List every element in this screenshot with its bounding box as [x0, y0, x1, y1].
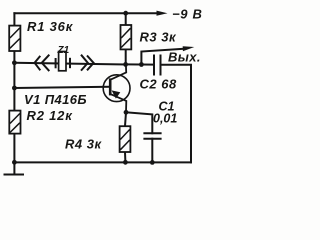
transistor V1 — [103, 65, 130, 113]
resistor R1 — [9, 26, 20, 51]
svg-text:R2 12к: R2 12к — [27, 108, 74, 123]
wire right edge (C2 to ground) — [161, 65, 191, 163]
node divider-crystal — [12, 60, 17, 65]
wire left rail — [13, 13, 15, 162]
resistor R2 — [9, 111, 20, 134]
wire bottom rail — [5, 162, 192, 174]
svg-text:С2 68: С2 68 — [140, 77, 177, 92]
capacitor C2 — [154, 55, 161, 76]
node bottom R4 — [123, 160, 128, 165]
wire C1 to ground — [151, 139, 153, 163]
wire emitter to C1 — [126, 112, 152, 133]
svg-text:Вых.: Вых. — [168, 50, 201, 65]
svg-text:R3 3к: R3 3к — [140, 30, 177, 45]
node emitter — [124, 110, 129, 115]
output arrow — [183, 46, 195, 51]
svg-text:R1 36к: R1 36к — [27, 19, 74, 34]
capacitor C1 — [143, 133, 161, 139]
wire top supply rail — [14, 12, 158, 14]
wire output stub — [141, 49, 183, 65]
wire base lead — [14, 87, 109, 88]
svg-text:0,01: 0,01 — [153, 112, 177, 126]
resistor R4 — [120, 126, 131, 152]
node bottom C1 — [150, 160, 155, 165]
svg-text:−9 В: −9 В — [172, 6, 203, 21]
svg-text:Z1: Z1 — [57, 45, 70, 56]
svg-text:V1 П416Б: V1 П416Б — [24, 92, 87, 107]
node top rail R3 — [123, 11, 128, 16]
node bottom left — [12, 160, 17, 165]
node output tap — [139, 62, 144, 67]
power arrow -9V — [157, 11, 168, 16]
resistor R3 — [121, 25, 132, 49]
node collector — [123, 62, 128, 67]
crystal Z1 — [35, 52, 94, 72]
wire crystal/base-divider line — [14, 63, 126, 65]
wire R3 leads — [125, 13, 127, 64]
wire collector node line — [126, 63, 154, 65]
svg-text:R4 3к: R4 3к — [65, 137, 102, 152]
wire R4 leads — [125, 112, 126, 162]
node base tap — [12, 86, 17, 91]
